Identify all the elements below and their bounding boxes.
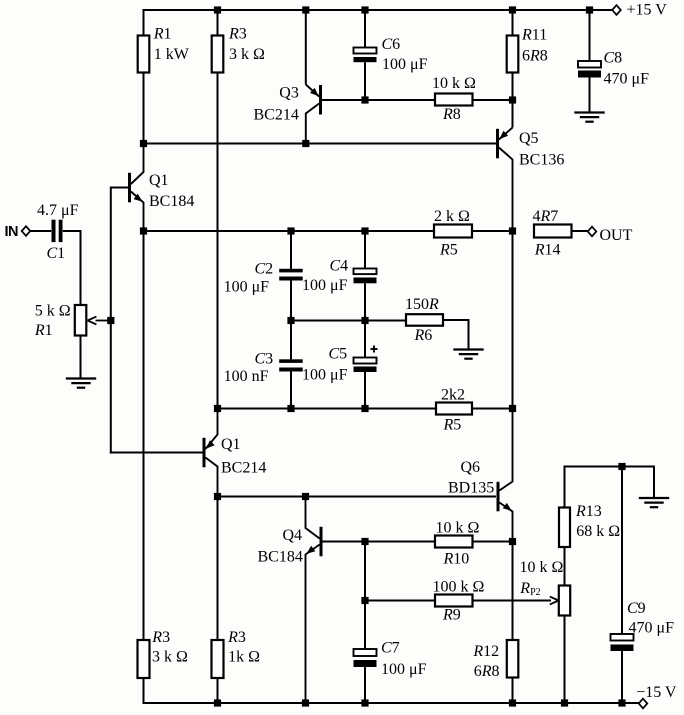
- label R12: [472, 643, 499, 660]
- wire C2 branch upper: [290, 231, 292, 270]
- wire R13 to pot RP2: [564, 547, 566, 586]
- junction lower line left: [214, 405, 221, 412]
- label R13: [575, 503, 602, 520]
- junction Q1 emitter node: [140, 227, 147, 234]
- label 6R8: [522, 48, 548, 65]
- wire C3 to lower line: [290, 371, 292, 408]
- label 10 k ohm for R10: [436, 520, 480, 537]
- Q1 base lead: [111, 187, 128, 189]
- label C9: [627, 600, 646, 617]
- junction C4 top: [361, 227, 368, 234]
- svg-text:100 k Ω: 100 k Ω: [433, 579, 485, 596]
- wire C5 branch upper: [364, 321, 366, 358]
- svg-text:10 k Ω: 10 k Ω: [520, 559, 564, 576]
- resistor R11 6R8: [507, 36, 519, 73]
- pot R1 wiper arrow: [88, 317, 111, 325]
- svg-text:Q4: Q4: [283, 527, 303, 544]
- transistor Q3 BC214 bar: [319, 85, 322, 115]
- junction mid line at C4/C5: [361, 317, 368, 324]
- label C3: [255, 351, 274, 368]
- junction OUT node: [509, 227, 516, 234]
- label 470 uF for C9: [629, 620, 675, 637]
- junction rail at R12: [509, 699, 516, 706]
- Q6 emitter arrow (NPN outward): [503, 503, 512, 511]
- resistor R3 (3 k ohm) top: [212, 36, 224, 73]
- capacitor C9 470uF: [611, 634, 634, 651]
- svg-text:2k2: 2k2: [441, 387, 465, 404]
- Q6 emitter lead: [499, 503, 512, 542]
- label 100 uF for C5: [302, 367, 348, 384]
- wire C4 branch upper: [364, 231, 366, 269]
- label C1: [47, 245, 66, 262]
- label C4: [330, 258, 349, 275]
- label R3: [228, 26, 247, 43]
- svg-text:R5: R5: [439, 242, 458, 259]
- label R11: [521, 27, 547, 44]
- junction on top rail at R3: [214, 6, 221, 13]
- label Q1: [149, 172, 169, 189]
- svg-text:Q5: Q5: [519, 130, 539, 147]
- label Q4: [283, 527, 303, 544]
- resistor R14 4R7: [534, 225, 572, 238]
- capacitor C1 4.7uF plates: [52, 220, 63, 242]
- wire from rail to R1: [143, 9, 145, 36]
- label 100 uF for C4: [302, 277, 348, 294]
- transistor Q6 BD135 bar: [497, 482, 500, 512]
- label 150R: [405, 296, 439, 313]
- potentiometer R1 5k body: [75, 305, 87, 336]
- label BC136 for Q5: [519, 151, 564, 168]
- svg-text:R10: R10: [443, 551, 470, 568]
- label C6: [382, 36, 401, 53]
- wire x365 between R10 and R9 lines: [364, 542, 366, 601]
- Q1b collector lead: [205, 458, 217, 497]
- wire mid line to OUT node: [144, 230, 513, 232]
- label IN: [5, 224, 19, 240]
- wire Q1 emitter node down to R3 bottom-left: [143, 231, 145, 640]
- label R3 bottom-mid: [227, 629, 246, 646]
- pot RP2 wiper arrow: [550, 597, 559, 605]
- junction lower line at C5: [361, 405, 368, 412]
- svg-text:C7: C7: [381, 640, 400, 657]
- resistor R3 3k bottom-left: [138, 640, 150, 678]
- wire R3 to rail: [143, 678, 145, 704]
- Q3 emitter arrow (PNP into bar): [310, 88, 319, 96]
- capacitor C2 100uF: [279, 269, 303, 281]
- capacitor C4 100uF: [354, 269, 377, 284]
- Q3 emitter lead: [306, 85, 319, 97]
- svg-text:100 μF: 100 μF: [302, 277, 348, 294]
- label BC184 for Q4: [258, 549, 303, 566]
- resistor R1 (1 kW): [138, 36, 150, 73]
- svg-text:−15 V: −15 V: [636, 684, 677, 701]
- capacitor C8 470uF: [578, 61, 601, 78]
- junction mid line at C2/C3: [287, 317, 294, 324]
- wire R11 to node: [512, 73, 514, 101]
- svg-text:R1: R1: [34, 322, 53, 339]
- junction rail at Q4 emitter: [302, 699, 309, 706]
- label 3 k ohm: [229, 46, 265, 63]
- resistor R5 2k2: [436, 403, 472, 415]
- C5 plus sign: [371, 346, 378, 353]
- label Q5: [519, 130, 539, 147]
- resistor R5 (2 k ohm): [434, 225, 472, 238]
- label BC214 for Q3: [254, 107, 299, 124]
- label R1: [153, 26, 172, 43]
- label R1 pot: [34, 322, 53, 339]
- junction at Q1b collector: [214, 493, 221, 500]
- Q1b emitter lead: [205, 409, 217, 450]
- svg-text:C8: C8: [604, 50, 623, 67]
- wire OUT node down lower: [512, 231, 514, 409]
- wire C5 to lower line: [364, 372, 366, 409]
- junction rail at C9: [618, 699, 625, 706]
- junction at Q4 collector: [302, 493, 309, 500]
- junction lower line right: [509, 405, 516, 412]
- svg-text:BC214: BC214: [221, 460, 266, 477]
- svg-text:Q1: Q1: [149, 172, 169, 189]
- svg-text:150R: 150R: [405, 296, 439, 313]
- wire C6 to base wire: [364, 62, 366, 100]
- ground at R6: [453, 350, 483, 359]
- wire node to Q5 emitter: [512, 100, 514, 128]
- svg-text:68 k Ω: 68 k Ω: [576, 523, 620, 540]
- label R9: [442, 607, 461, 624]
- label 3 k ohm bottom-left: [152, 649, 188, 666]
- label -15 V: [636, 684, 677, 701]
- resistor R6 150R: [406, 314, 443, 326]
- wire C4 to mid node: [364, 283, 366, 320]
- label C2: [255, 261, 274, 278]
- wire C9 to bottom rail: [621, 651, 623, 703]
- wire R3 down long segment: [217, 73, 219, 409]
- label R6: [414, 327, 433, 344]
- wire Q6 emitter node to R12: [512, 542, 514, 641]
- wire node A horizontal to Q5 base: [144, 143, 497, 145]
- wire to right ground: [653, 466, 655, 499]
- junction R9 line at C7: [361, 597, 368, 604]
- wire C1 to pot: [63, 231, 81, 305]
- wire R3 1k to rail: [217, 678, 219, 703]
- capacitor C6 100uF: [354, 48, 377, 63]
- svg-text:10 k Ω: 10 k Ω: [432, 75, 476, 92]
- svg-text:C5: C5: [329, 346, 348, 363]
- svg-text:R5: R5: [443, 417, 462, 434]
- svg-text:C1: C1: [47, 245, 66, 262]
- svg-text:+15 V: +15 V: [627, 2, 668, 19]
- label 4R7: [533, 208, 559, 225]
- terminal IN: [22, 226, 31, 236]
- wire mid cap line: [291, 320, 406, 322]
- ground below pot R1: [66, 379, 96, 388]
- wire R13 top horizontal: [565, 466, 656, 468]
- svg-text:R12: R12: [472, 643, 499, 660]
- resistor R9 (100 k ohm): [435, 595, 473, 607]
- label 470 uF for C8: [604, 71, 650, 88]
- label BC214 for Q1b: [221, 460, 266, 477]
- wire rail to Q3 emitter: [305, 10, 307, 85]
- resistor R8 (10 k ohm): [435, 94, 473, 106]
- svg-text:R9: R9: [442, 607, 461, 624]
- resistor R3 1k bottom: [212, 640, 224, 678]
- svg-text:C3: C3: [255, 351, 274, 368]
- wire C8 to ground: [589, 78, 591, 113]
- svg-text:4.7 μF: 4.7 μF: [37, 202, 79, 219]
- label 5 k ohm: [35, 302, 71, 319]
- potentiometer RP2 body: [559, 586, 570, 616]
- svg-text:1 kW: 1 kW: [154, 46, 190, 63]
- wire Q1 base vertical run: [110, 187, 112, 454]
- svg-text:BC214: BC214: [254, 107, 299, 124]
- wire R14 to OUT terminal: [572, 230, 589, 232]
- label BC184 for Q1: [149, 193, 194, 210]
- Q1b emitter arrow (PNP into bar): [206, 440, 215, 448]
- svg-text:C4: C4: [330, 258, 349, 275]
- svg-text:6R8: 6R8: [522, 48, 548, 65]
- junction pot wiper on base line: [107, 317, 114, 324]
- resistor R10 (10 k ohm): [435, 536, 473, 548]
- junction rail at C7: [361, 699, 368, 706]
- Q6 collector lead: [499, 409, 512, 491]
- capacitor C7 100uF: [354, 649, 377, 667]
- label R3 bottom-left: [151, 629, 170, 646]
- Q4 base wire with R10: [322, 541, 512, 543]
- Q1 collector lead: [131, 144, 144, 185]
- wire rail to R11: [512, 10, 514, 36]
- ground right side: [639, 498, 669, 507]
- capacitor C3 100nF: [279, 359, 303, 371]
- label 2k2: [441, 387, 465, 404]
- wire C9 branch: [621, 467, 623, 635]
- svg-text:100 μF: 100 μF: [224, 279, 270, 296]
- label 100 k ohm for R9: [433, 579, 485, 596]
- Q1b base wire: [110, 452, 203, 454]
- junction C9 top: [618, 463, 625, 470]
- label 1k ohm: [228, 649, 260, 666]
- label 100 uF for C2: [224, 279, 270, 296]
- label +15 V: [627, 2, 668, 19]
- svg-text:5 k Ω: 5 k Ω: [35, 302, 71, 319]
- label R8: [442, 106, 461, 123]
- junction node A at Q3 collector: [302, 140, 309, 147]
- svg-text:BD135: BD135: [448, 480, 494, 497]
- svg-text:R6: R6: [414, 327, 433, 344]
- junction on top rail at Q3 emitter branch: [302, 6, 309, 13]
- svg-text:BC184: BC184: [149, 193, 194, 210]
- Q5 emitter arrow (PNP into bar): [499, 131, 508, 139]
- label Q6: [461, 459, 481, 476]
- transistor Q1b BC214 bar: [203, 438, 206, 468]
- svg-text:470 μF: 470 μF: [604, 71, 650, 88]
- wire rail to C6: [364, 10, 366, 48]
- label Q1b: [221, 436, 241, 453]
- label BD135 for Q6: [448, 480, 494, 497]
- wire from rail to R3: [217, 10, 219, 36]
- junction on top rail at C6: [361, 6, 368, 13]
- junction R10 line at x365: [361, 538, 368, 545]
- label C5: [329, 346, 348, 363]
- Q5 emitter lead: [499, 128, 513, 140]
- svg-text:OUT: OUT: [600, 227, 633, 244]
- label 6R8 for R12: [474, 663, 500, 680]
- svg-text:2 k Ω: 2 k Ω: [434, 208, 470, 225]
- wire R6 to ground: [443, 320, 469, 350]
- Q1 emitter arrow (NPN outward): [134, 194, 143, 202]
- wire C2 to mid node: [290, 281, 292, 321]
- wire RP2 to bottom rail: [564, 616, 566, 704]
- wire R13 top lead: [564, 466, 566, 508]
- svg-text:4R7: 4R7: [533, 208, 559, 225]
- svg-text:Q6: Q6: [461, 459, 481, 476]
- terminal +15 V: [612, 5, 621, 15]
- junction rail at R3 1k: [214, 699, 221, 706]
- svg-text:1k Ω: 1k Ω: [228, 649, 260, 666]
- label 100 uF for C6: [382, 56, 428, 73]
- junction rail at RP2: [561, 699, 568, 706]
- wire R9 line: [365, 600, 551, 602]
- label R10: [443, 551, 470, 568]
- svg-text:R3: R3: [228, 26, 247, 43]
- label C7: [381, 640, 400, 657]
- svg-text:100 μF: 100 μF: [381, 661, 427, 678]
- svg-text:R3: R3: [151, 629, 170, 646]
- resistor R12 6R8: [507, 640, 519, 678]
- label R14: [534, 242, 561, 259]
- wire pot to ground: [80, 336, 82, 379]
- label R5 lower: [443, 417, 462, 434]
- svg-text:3 k Ω: 3 k Ω: [152, 649, 188, 666]
- label 68 k ohm: [576, 523, 620, 540]
- capacitor C5 100uF electrolytic: [354, 358, 377, 373]
- svg-text:BC184: BC184: [258, 549, 303, 566]
- junction lower line at C3: [287, 405, 294, 412]
- Q1 emitter lead: [131, 192, 144, 232]
- svg-text:C9: C9: [627, 600, 646, 617]
- wire C7 to bottom rail: [364, 667, 366, 703]
- svg-text:470 μF: 470 μF: [629, 620, 675, 637]
- junction on top rail at R11: [509, 6, 516, 13]
- svg-text:R11: R11: [521, 27, 547, 44]
- svg-text:R13: R13: [575, 503, 602, 520]
- wire top +15V supply rail: [144, 9, 613, 11]
- label 1 kW: [154, 46, 190, 63]
- svg-text:100 nF: 100 nF: [224, 368, 269, 385]
- wire down to R3 1k: [217, 497, 219, 641]
- label 10 k ohm for RP2: [520, 559, 564, 576]
- wire lower feedback line: [218, 408, 513, 410]
- transistor Q5 BC136 bar: [496, 129, 499, 159]
- Q3 collector lead: [306, 104, 319, 144]
- terminal -15 V: [639, 699, 648, 709]
- transistor Q1 BC184 bar: [128, 173, 131, 203]
- svg-text:BC136: BC136: [519, 151, 564, 168]
- label 100 nF for C3: [224, 368, 269, 385]
- Q5 collector lead: [499, 148, 513, 232]
- label R5: [439, 242, 458, 259]
- svg-text:6R8: 6R8: [474, 663, 500, 680]
- wire rail to C8: [589, 10, 591, 61]
- svg-text:R1: R1: [153, 26, 172, 43]
- svg-text:IN: IN: [5, 224, 19, 240]
- Q4 collector lead: [306, 497, 320, 539]
- svg-text:Q3: Q3: [279, 85, 299, 102]
- terminal OUT: [588, 227, 597, 237]
- junction C2 top: [287, 227, 294, 234]
- junction node A at R1/Q1: [140, 140, 147, 147]
- wire R1 to node A: [143, 73, 145, 144]
- wire Q3 base to R11 node: [322, 99, 513, 101]
- svg-text:Q1: Q1: [221, 436, 241, 453]
- junction C6 bottom on base wire: [361, 96, 368, 103]
- label RP2: [519, 580, 540, 598]
- label 4.7 uF: [37, 202, 79, 219]
- Q4 emitter arrow (NPN outward): [306, 546, 315, 554]
- svg-text:100 μF: 100 μF: [302, 367, 348, 384]
- svg-text:R14: R14: [534, 242, 561, 259]
- label 10 k ohm for R8: [432, 75, 476, 92]
- svg-text:C2: C2: [255, 261, 274, 278]
- ground below C8: [574, 113, 604, 122]
- svg-text:C6: C6: [382, 36, 401, 53]
- junction on top rail at C8: [586, 6, 593, 13]
- label 100 uF for C7: [381, 661, 427, 678]
- label 2 k ohm: [434, 208, 470, 225]
- label C8: [604, 50, 623, 67]
- junction below R11: [509, 96, 516, 103]
- wire Q1b collector to Q6 base: [218, 496, 497, 498]
- Q4 emitter lead: [306, 545, 320, 704]
- wire R12 to bottom rail: [512, 678, 514, 704]
- svg-text:3 k Ω: 3 k Ω: [229, 46, 265, 63]
- transistor Q4 BC184 bar: [320, 527, 323, 557]
- label Q3: [279, 85, 299, 102]
- resistor R13 68k: [559, 508, 570, 548]
- svg-text:R3: R3: [227, 629, 246, 646]
- wire C7 branch: [364, 601, 366, 650]
- svg-text:100 μF: 100 μF: [382, 56, 428, 73]
- junction R10 line at Q6 emitter: [509, 538, 516, 545]
- svg-text:10 k Ω: 10 k Ω: [436, 520, 480, 537]
- wire C3 branch upper: [290, 321, 292, 360]
- label OUT: [600, 227, 633, 244]
- wire IN to C1: [30, 230, 51, 232]
- wire bottom -15V rail: [144, 702, 640, 704]
- svg-text:R8: R8: [442, 106, 461, 123]
